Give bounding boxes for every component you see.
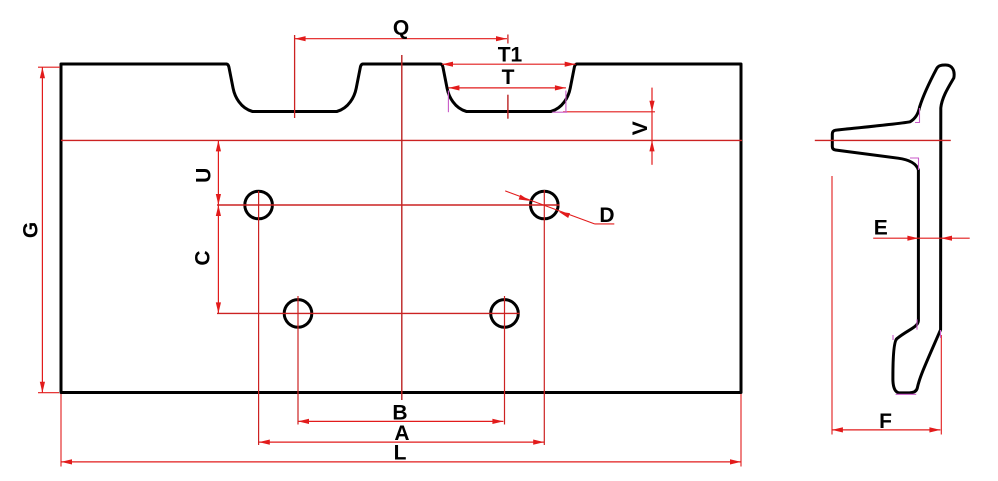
- svg-text:U: U: [193, 168, 216, 183]
- fillet mark magenta slant join: [940, 330, 942, 338]
- grouser reference line (front view): [61, 139, 742, 141]
- dimension G line: [41, 67, 43, 392]
- upper-right hole centerline (vertical): [543, 190, 545, 445]
- svg-text:V: V: [629, 121, 652, 135]
- lower-right hole centerline (vertical): [504, 296, 506, 425]
- dimension T line: [448, 87, 566, 89]
- tangent mark magenta left (right notch): [447, 91, 449, 113]
- svg-text:D: D: [599, 204, 614, 227]
- right notch centerline tick (top): [507, 35, 509, 44]
- svg-text:E: E: [874, 217, 888, 240]
- dimension B line: [298, 420, 503, 422]
- fillet mark magenta grouser left: [892, 335, 894, 340]
- L extension line left: [60, 394, 62, 467]
- tangent mark magenta right (right notch): [565, 91, 567, 113]
- svg-text:G: G: [20, 222, 43, 238]
- bolt hole upper-left: [245, 191, 273, 219]
- L extension line right: [740, 394, 742, 467]
- side view track shoe profile: [832, 65, 954, 393]
- svg-text:L: L: [394, 442, 407, 465]
- lower holes centerline (horizontal): [217, 312, 520, 314]
- tangent mark magenta bottom (right notch): [552, 111, 567, 113]
- right notch centerline tick (bottom): [507, 95, 509, 119]
- lower-left hole centerline (vertical): [297, 296, 299, 425]
- svg-text:Q: Q: [393, 17, 409, 40]
- dimension L line: [61, 461, 741, 463]
- fillet mark magenta grouser bottom: [896, 393, 917, 395]
- bolt hole lower-right: [491, 300, 519, 328]
- dimension F extension line right: [940, 335, 942, 435]
- svg-text:T: T: [502, 66, 515, 89]
- svg-text:C: C: [192, 250, 215, 265]
- upper holes centerline (horizontal): [217, 204, 560, 206]
- dimension V line: [651, 88, 653, 165]
- upper-left hole centerline (vertical): [258, 191, 260, 445]
- fillet mark magenta bar bottom-left: [916, 319, 918, 329]
- plate vertical centerline: [401, 55, 403, 400]
- dimension T1 line: [442, 63, 576, 65]
- svg-text:T1: T1: [498, 44, 523, 67]
- dimension V extension line: [563, 111, 655, 113]
- bolt hole lower-left: [284, 300, 312, 328]
- dimension Q line: [295, 38, 507, 40]
- svg-text:F: F: [879, 410, 892, 433]
- dimension A line: [259, 441, 544, 443]
- dimension F extension line left: [831, 176, 833, 435]
- left notch centerline: [294, 35, 296, 118]
- dimension D leader: [505, 191, 594, 224]
- bolt hole upper-right: [531, 191, 559, 219]
- fillet mark magenta horn corner: [915, 108, 920, 123]
- dimension F line: [832, 429, 941, 431]
- dimension U/C line: [217, 140, 219, 313]
- fillet mark magenta flange bottom corner: [910, 158, 919, 170]
- dimension E line: [873, 237, 970, 239]
- dimension G extension lines: [38, 66, 60, 68]
- side view centerline: [815, 139, 951, 141]
- track pad plate outline (front view) with two grouser notches: [61, 64, 741, 393]
